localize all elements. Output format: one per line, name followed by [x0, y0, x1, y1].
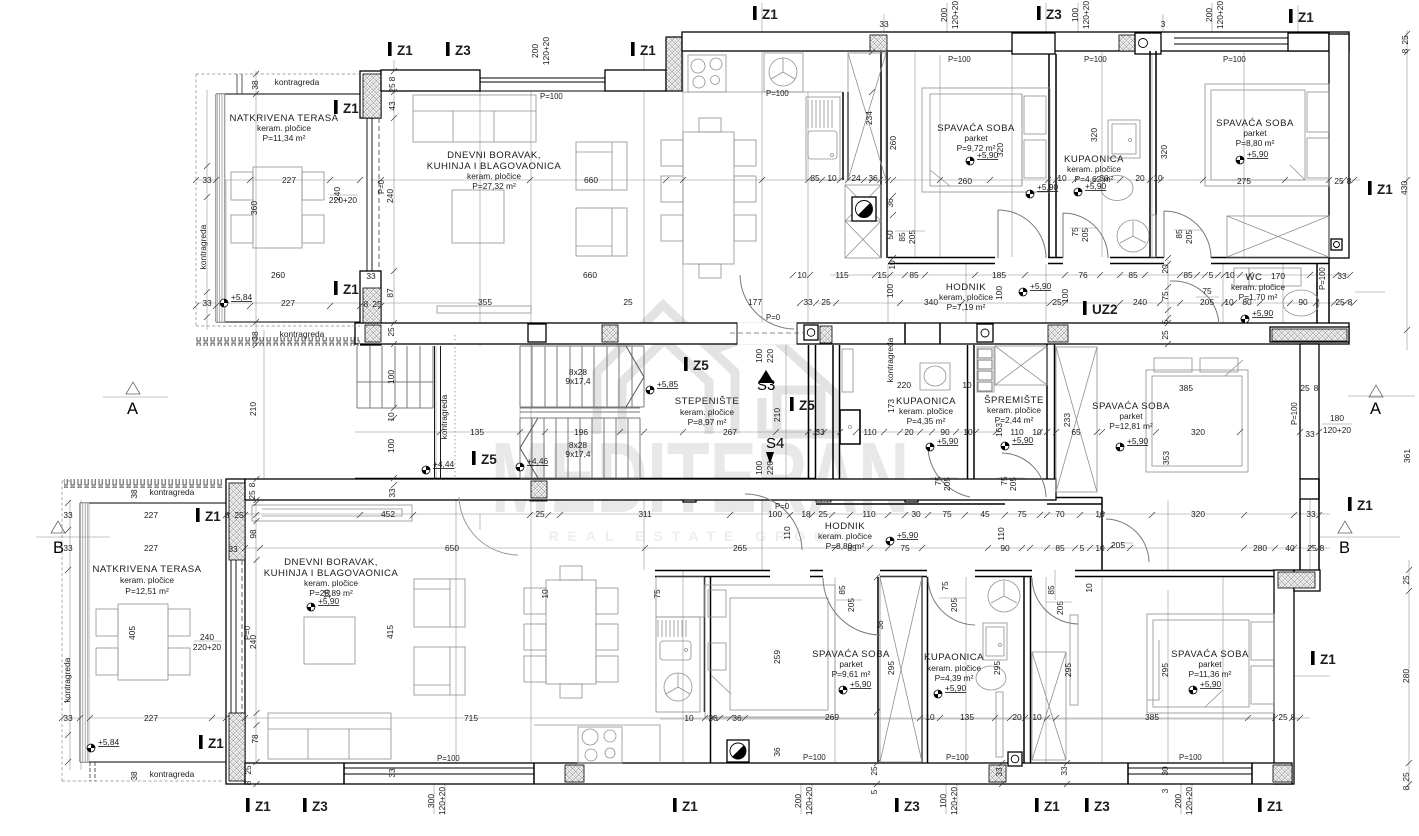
wall bedroom1/bathroom: [1049, 54, 1056, 258]
svg-text:385: 385: [1179, 383, 1193, 393]
svg-text:177: 177: [748, 297, 762, 307]
svg-text:75: 75: [1017, 509, 1027, 519]
svg-text:110: 110: [862, 509, 876, 519]
svg-text:P=4,39 m²: P=4,39 m²: [935, 673, 974, 683]
svg-text:20: 20: [1135, 173, 1145, 183]
svg-text:33: 33: [387, 768, 397, 778]
svg-text:kontragreda: kontragreda: [150, 487, 195, 497]
svg-text:415: 415: [385, 625, 395, 639]
svg-text:20: 20: [1012, 712, 1022, 722]
svg-text:280: 280: [1401, 669, 1411, 683]
svg-text:85: 85: [909, 270, 919, 280]
svg-text:405: 405: [127, 626, 137, 640]
svg-text:295: 295: [1160, 663, 1170, 677]
svg-text:295: 295: [1063, 663, 1073, 677]
svg-text:20: 20: [904, 427, 914, 437]
svg-text:85: 85: [1046, 585, 1056, 595]
svg-text:259: 259: [772, 650, 782, 664]
svg-text:3: 3: [1161, 19, 1166, 29]
svg-text:100: 100: [754, 349, 764, 363]
svg-text:+5,90: +5,90: [1200, 679, 1222, 689]
svg-text:+5,84: +5,84: [231, 292, 253, 302]
svg-text:33: 33: [228, 544, 238, 554]
svg-text:25: 25: [1401, 575, 1411, 585]
svg-text:NATKRIVENA TERASA: NATKRIVENA TERASA: [92, 564, 201, 575]
room label upper living: [427, 150, 562, 191]
svg-text:75: 75: [1160, 291, 1170, 301]
svg-text:keram. pločice: keram. pločice: [927, 663, 981, 673]
svg-text:keram. pločice: keram. pločice: [1231, 282, 1285, 292]
svg-text:P=100: P=100: [1223, 55, 1246, 64]
svg-text:P=9,61 m²: P=9,61 m²: [832, 669, 871, 679]
upper unit left wall: [360, 71, 381, 345]
svg-text:8: 8: [247, 482, 257, 487]
svg-text:240: 240: [200, 632, 214, 642]
svg-text:33: 33: [63, 510, 73, 520]
svg-text:P=100: P=100: [1179, 753, 1202, 762]
room label hodnik lower: [818, 521, 872, 551]
lower terrace: [62, 479, 226, 781]
dimension numbers stairs/mid row: [470, 380, 1351, 439]
svg-text:10: 10: [1153, 173, 1163, 183]
svg-text:38: 38: [129, 771, 139, 781]
svg-text:36: 36: [875, 620, 885, 630]
svg-text:Z3: Z3: [904, 799, 920, 814]
svg-text:135: 135: [960, 712, 974, 722]
svg-text:33: 33: [63, 713, 73, 723]
mid block south wall: [816, 497, 1102, 570]
svg-text:Z1: Z1: [208, 736, 224, 751]
bed bedroom1 upper: [922, 88, 1050, 192]
svg-text:25: 25: [1160, 330, 1170, 340]
svg-text:200: 200: [1173, 794, 1183, 808]
svg-text:keram. pločice: keram. pločice: [304, 578, 358, 588]
svg-text:Z1: Z1: [1298, 10, 1314, 25]
svg-text:P=100: P=100: [540, 92, 563, 101]
svg-text:220: 220: [897, 380, 911, 390]
svg-text:UZ2: UZ2: [1092, 302, 1118, 317]
svg-text:P=100: P=100: [1084, 55, 1107, 64]
svg-text:227: 227: [144, 543, 158, 553]
svg-text:320: 320: [995, 143, 1005, 157]
svg-text:205: 205: [1055, 601, 1065, 615]
svg-text:kontragreda: kontragreda: [198, 224, 208, 269]
svg-text:36: 36: [772, 747, 782, 757]
svg-text:185: 185: [992, 270, 1006, 280]
dimension numbers bottom row: [63, 712, 1295, 723]
svg-text:P=8,80 m²: P=8,80 m²: [1236, 138, 1275, 148]
svg-text:25: 25: [1401, 772, 1411, 782]
svg-text:P=100: P=100: [803, 753, 826, 762]
upper terrace: [196, 74, 360, 346]
svg-text:295: 295: [992, 661, 1002, 675]
dimension numbers horizontal upper: [202, 19, 1352, 309]
svg-text:110: 110: [782, 526, 792, 540]
svg-text:P=100: P=100: [766, 89, 789, 98]
svg-text:320: 320: [1159, 145, 1169, 159]
svg-text:210: 210: [772, 408, 782, 422]
mid kupaonica left wall: [833, 345, 840, 497]
room label kupaonica mid: [896, 396, 956, 426]
svg-text:85: 85: [1128, 270, 1138, 280]
svg-text:P=0: P=0: [766, 313, 781, 322]
svg-text:87: 87: [385, 288, 395, 298]
svg-text:P=12,51 m²: P=12,51 m²: [125, 586, 169, 596]
svg-text:33: 33: [994, 767, 1004, 777]
svg-text:205: 205: [1111, 540, 1125, 550]
svg-text:110: 110: [1010, 427, 1024, 437]
svg-text:200: 200: [939, 8, 949, 22]
spremiste/bedroom wall: [1047, 344, 1055, 498]
svg-text:45: 45: [980, 509, 990, 519]
svg-text:S4: S4: [766, 435, 784, 452]
svg-text:Z1: Z1: [343, 101, 359, 116]
svg-text:75: 75: [1070, 227, 1080, 237]
svg-text:120+20: 120+20: [541, 37, 551, 66]
kupaonica/spremiste wall: [968, 345, 975, 497]
small fixture square + circle near shaft: [852, 197, 876, 221]
svg-text:265: 265: [733, 543, 747, 553]
svg-text:parket: parket: [964, 133, 988, 143]
svg-text:200: 200: [793, 794, 803, 808]
svg-text:30: 30: [1099, 173, 1109, 183]
wall bathroom/bedroom2: [1150, 51, 1156, 258]
svg-text:295: 295: [886, 661, 896, 675]
svg-text:Z1: Z1: [1357, 498, 1373, 513]
svg-text:75: 75: [1202, 286, 1212, 296]
svg-text:30: 30: [911, 509, 921, 519]
dimension numbers lower corridor rows: [63, 509, 1324, 554]
svg-text:173: 173: [886, 399, 896, 413]
svg-text:100: 100: [938, 794, 948, 808]
svg-text:33: 33: [1306, 509, 1316, 519]
svg-text:5: 5: [1160, 319, 1170, 324]
svg-text:100: 100: [386, 439, 396, 453]
svg-text:300: 300: [426, 794, 436, 808]
svg-text:+4,44: +4,44: [433, 459, 455, 469]
svg-text:38: 38: [129, 489, 139, 499]
svg-text:keram. pločice: keram. pločice: [818, 531, 872, 541]
svg-text:10: 10: [827, 173, 837, 183]
svg-text:parket: parket: [1119, 411, 1143, 421]
svg-text:8: 8: [387, 76, 397, 81]
svg-text:120+20: 120+20: [949, 787, 959, 816]
svg-text:DNEVNI BORAVAK,: DNEVNI BORAVAK,: [284, 557, 378, 568]
parapet P=100 top: [480, 78, 605, 91]
right wall lower with step: [1274, 570, 1294, 784]
svg-text:10: 10: [1057, 173, 1067, 183]
svg-text:120+20: 120+20: [437, 787, 447, 816]
svg-text:25: 25: [372, 299, 382, 309]
svg-text:360: 360: [249, 201, 259, 215]
svg-text:220+20: 220+20: [193, 642, 222, 652]
svg-text:50: 50: [885, 230, 895, 240]
room label bedroom2 upper: [1216, 118, 1294, 148]
svg-text:25: 25: [1300, 383, 1310, 393]
svg-text:205: 205: [942, 477, 952, 491]
svg-text:P=8,97 m²: P=8,97 m²: [688, 417, 727, 427]
svg-text:5: 5: [1209, 270, 1214, 280]
svg-text:keram. pločice: keram. pločice: [257, 123, 311, 133]
svg-text:+4,46: +4,46: [527, 456, 549, 466]
svg-text:+5,90: +5,90: [1030, 281, 1052, 291]
svg-text:P=100: P=100: [948, 55, 971, 64]
svg-text:205: 205: [1008, 477, 1018, 491]
svg-text:25: 25: [386, 327, 396, 337]
bed bedroom lower-left: [705, 585, 835, 717]
svg-text:120+20: 120+20: [1184, 787, 1194, 816]
svg-text:200: 200: [1204, 8, 1214, 22]
svg-text:33: 33: [202, 298, 212, 308]
svg-text:10: 10: [1084, 583, 1094, 593]
svg-text:25: 25: [243, 765, 253, 775]
svg-text:240: 240: [385, 189, 395, 203]
svg-text:Z3: Z3: [1094, 799, 1110, 814]
corridor bottom wall (lower): [655, 571, 1294, 577]
terrace datums: [220, 299, 228, 307]
svg-text:8: 8: [1314, 383, 1319, 393]
svg-text:355: 355: [478, 297, 492, 307]
mid bedroom wardrobe: [1056, 347, 1097, 492]
svg-text:8: 8: [1401, 785, 1411, 790]
svg-text:200: 200: [530, 44, 540, 58]
bathroom right wall lower: [1024, 577, 1031, 763]
svg-text:233: 233: [1062, 413, 1072, 427]
stairwell left wall thin: [435, 346, 441, 478]
wardrobe X bedroom2: [1227, 216, 1329, 257]
svg-text:Z3: Z3: [1046, 7, 1062, 22]
svg-text:260: 260: [888, 136, 898, 150]
svg-text:10: 10: [1224, 297, 1234, 307]
svg-text:100: 100: [768, 509, 782, 519]
svg-text:85: 85: [1174, 229, 1184, 239]
svg-text:25: 25: [234, 510, 244, 520]
svg-text:385: 385: [1145, 712, 1159, 722]
corridor top wall: [888, 258, 1329, 264]
svg-text:85: 85: [1055, 543, 1065, 553]
svg-text:10: 10: [963, 427, 973, 437]
svg-text:Z1: Z1: [682, 799, 698, 814]
svg-text:120+20: 120+20: [1215, 1, 1225, 30]
svg-text:P=12,81 m²: P=12,81 m²: [1109, 421, 1153, 431]
svg-text:260: 260: [271, 270, 285, 280]
svg-text:25: 25: [387, 83, 397, 93]
kitchen/bedrooms top wall band: [682, 32, 1349, 51]
svg-text:10: 10: [322, 589, 332, 599]
fraction lines small: [836, 180, 1219, 602]
svg-text:P=8,80 m²: P=8,80 m²: [826, 541, 865, 551]
svg-text:205: 205: [949, 598, 959, 612]
bed bedroom lower-right: [1147, 614, 1274, 713]
svg-text:320: 320: [1089, 128, 1099, 142]
svg-text:10: 10: [1032, 712, 1042, 722]
svg-text:38: 38: [250, 331, 260, 341]
right wall step lower: [1300, 479, 1319, 570]
svg-text:keram. pločice: keram. pločice: [1067, 164, 1121, 174]
lower unit left wall: [226, 479, 245, 784]
svg-text:Z1: Z1: [343, 282, 359, 297]
svg-text:8: 8: [243, 780, 253, 785]
svg-text:220: 220: [765, 461, 775, 475]
svg-text:10: 10: [540, 589, 550, 599]
furniture upper terrace table: [231, 167, 324, 248]
stairs upper flight: [520, 346, 644, 478]
room label bedroom lower-right: [1171, 649, 1249, 679]
svg-text:A: A: [127, 400, 138, 418]
svg-text:DNEVNI BORAVAK,: DNEVNI BORAVAK,: [447, 150, 541, 161]
room label hodnik upper: [939, 282, 993, 312]
bathroom top fixtures: [1101, 120, 1156, 257]
svg-text:75: 75: [652, 589, 662, 599]
svg-text:25: 25: [247, 490, 257, 500]
svg-text:85: 85: [1183, 270, 1193, 280]
svg-text:36: 36: [885, 198, 895, 208]
svg-text:110: 110: [996, 527, 1006, 541]
svg-text:75: 75: [942, 509, 952, 519]
svg-text:kontragreda: kontragreda: [275, 77, 320, 87]
svg-text:P=100: P=100: [946, 753, 969, 762]
svg-text:196: 196: [574, 427, 588, 437]
svg-text:76: 76: [1078, 270, 1088, 280]
kontragreda planks: [357, 346, 433, 408]
svg-text:24: 24: [851, 173, 861, 183]
svg-text:P=4,35 m²: P=4,35 m²: [907, 416, 946, 426]
internal wall kitchen divider: [843, 92, 848, 180]
svg-text:A: A: [1370, 400, 1381, 418]
svg-text:+5,90: +5,90: [1247, 149, 1269, 159]
svg-text:+5,90: +5,90: [937, 436, 959, 446]
svg-text:+5,90: +5,90: [1252, 308, 1274, 318]
S3 S4 stair direction markers: [758, 370, 774, 383]
svg-text:170: 170: [1271, 271, 1285, 281]
svg-text:180: 180: [1330, 413, 1344, 423]
sofa lower: [268, 713, 391, 759]
mid bedroom right wall: [1300, 344, 1319, 479]
svg-text:220: 220: [765, 349, 775, 363]
armchairs upper: [576, 142, 627, 256]
svg-text:205: 205: [1200, 297, 1214, 307]
coffee table lower: [304, 617, 355, 664]
svg-text:267: 267: [723, 427, 737, 437]
svg-text:Z1: Z1: [1377, 182, 1393, 197]
svg-text:275: 275: [1237, 176, 1251, 186]
svg-text:33: 33: [879, 19, 889, 29]
svg-text:33: 33: [1059, 766, 1069, 776]
svg-text:10: 10: [887, 260, 897, 270]
lower unit bottom wall: [245, 763, 1292, 784]
svg-text:100: 100: [1060, 289, 1070, 303]
wardrobe X lower mid: [1032, 652, 1066, 760]
svg-text:keram. pločice: keram. pločice: [120, 575, 174, 585]
room label bedroom lower-left: [812, 649, 890, 679]
svg-text:36: 36: [868, 173, 878, 183]
svg-text:+5,90: +5,90: [945, 683, 967, 693]
svg-text:10: 10: [797, 270, 807, 280]
svg-text:120+20: 120+20: [950, 1, 960, 30]
svg-text:S3: S3: [757, 377, 775, 394]
svg-text:280: 280: [1253, 543, 1267, 553]
svg-text:25: 25: [869, 766, 879, 776]
svg-text:Z5: Z5: [693, 358, 709, 373]
room label lower living: [264, 557, 399, 598]
svg-text:90: 90: [1000, 543, 1010, 553]
svg-text:25: 25: [818, 509, 828, 519]
svg-text:Z1: Z1: [640, 43, 656, 58]
svg-text:85: 85: [897, 232, 907, 242]
upper top wall mid segment: [605, 70, 666, 91]
svg-text:+5,85: +5,85: [657, 379, 679, 389]
svg-text:5: 5: [869, 789, 879, 794]
svg-text:keram. pločice: keram. pločice: [939, 292, 993, 302]
room label upper terrace: [229, 113, 338, 143]
svg-text:240: 240: [248, 635, 258, 649]
svg-text:Z1: Z1: [255, 799, 271, 814]
svg-text:650: 650: [445, 543, 459, 553]
stairwell right wall: [809, 345, 816, 490]
svg-text:B: B: [1339, 539, 1350, 557]
svg-text:8: 8: [364, 299, 369, 309]
svg-text:85: 85: [837, 585, 847, 595]
svg-text:227: 227: [144, 713, 158, 723]
room label kupaonica upper: [1064, 154, 1124, 184]
kitchen/bedroom divider lower: [705, 577, 711, 763]
upper unit top wall left segment: [381, 70, 480, 91]
svg-text:STEPENIŠTE: STEPENIŠTE: [675, 396, 740, 407]
svg-text:25: 25: [821, 297, 831, 307]
svg-text:353: 353: [1161, 451, 1171, 465]
svg-text:311: 311: [638, 509, 652, 519]
svg-text:keram. pločice: keram. pločice: [680, 407, 734, 417]
svg-text:80: 80: [1242, 297, 1252, 307]
bed bedroom2 upper: [1205, 84, 1329, 186]
svg-text:660: 660: [583, 270, 597, 280]
svg-text:8: 8: [1320, 543, 1325, 553]
svg-text:25: 25: [535, 509, 545, 519]
svg-text:25: 25: [623, 297, 633, 307]
svg-text:36: 36: [708, 713, 718, 723]
svg-text:+5,90: +5,90: [1127, 436, 1149, 446]
svg-text:120+20: 120+20: [1081, 1, 1091, 30]
svg-text:227: 227: [281, 298, 295, 308]
svg-text:Z1: Z1: [1320, 652, 1336, 667]
svg-text:parket: parket: [839, 659, 863, 669]
svg-text:98: 98: [248, 529, 258, 539]
svg-text:85: 85: [810, 173, 820, 183]
section A-A B-B markers: [36, 382, 1415, 557]
svg-text:240: 240: [1133, 297, 1147, 307]
svg-text:340: 340: [924, 297, 938, 307]
svg-text:+5,84: +5,84: [98, 737, 120, 747]
mid kupaonica fixtures: [840, 349, 950, 444]
kitchen lower bottom counter: [534, 725, 660, 763]
dining table lower: [524, 566, 618, 698]
svg-text:163: 163: [994, 423, 1004, 437]
svg-text:25: 25: [1278, 712, 1288, 722]
svg-text:25: 25: [1335, 297, 1345, 307]
svg-text:115: 115: [835, 270, 849, 280]
spremiste shelves: [977, 346, 1047, 392]
svg-text:220+20: 220+20: [329, 195, 358, 205]
svg-text:227: 227: [144, 510, 158, 520]
svg-text:227: 227: [282, 175, 296, 185]
coffee table upper: [452, 190, 504, 243]
svg-text:kontragreda: kontragreda: [280, 329, 325, 339]
svg-text:+5,90: +5,90: [1037, 182, 1059, 192]
svg-text:P=100: P=100: [1290, 402, 1299, 425]
svg-text:KUPAONICA: KUPAONICA: [924, 652, 984, 663]
svg-text:10: 10: [962, 380, 972, 390]
svg-text:100: 100: [885, 284, 895, 298]
